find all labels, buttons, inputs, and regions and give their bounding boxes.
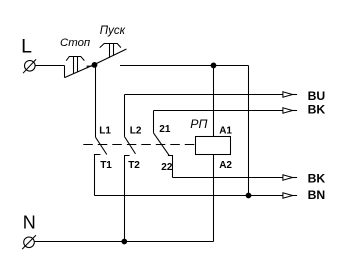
arrow BK1 xyxy=(283,108,293,113)
contact L1 blade xyxy=(96,137,107,154)
svg-text:T2: T2 xyxy=(128,160,140,171)
pushbutton SB1 Стоп actuator xyxy=(66,57,84,61)
node junction dot on BN line xyxy=(246,193,252,199)
arrow BU xyxy=(283,92,293,97)
contact L2 blade xyxy=(125,137,136,154)
svg-text:РП: РП xyxy=(190,117,207,131)
node junction dot after Stop button xyxy=(92,62,98,68)
wire L to Stop button xyxy=(35,65,64,67)
node junction dot on N bus xyxy=(121,239,127,245)
svg-text:L1: L1 xyxy=(99,125,111,136)
wire BU line xyxy=(125,94,283,96)
wire BK1 line xyxy=(154,110,283,112)
terminal N circle xyxy=(24,237,35,248)
wire top bus from Пуск to right corner xyxy=(120,65,249,67)
node junction dot at coil branch xyxy=(211,63,217,69)
svg-text:L: L xyxy=(21,36,32,58)
wire right branch down to BN line xyxy=(248,66,250,196)
wire N bus xyxy=(34,241,213,243)
svg-text:L2: L2 xyxy=(130,125,142,136)
contact T2 fixed seat and lead down xyxy=(125,156,130,242)
pushbutton SB2 Пуск blade xyxy=(94,49,126,65)
svg-text:T1: T1 xyxy=(100,160,112,171)
svg-text:22: 22 xyxy=(161,162,173,173)
terminal N slash xyxy=(22,235,36,249)
svg-text:BU: BU xyxy=(308,89,326,103)
svg-text:BK: BK xyxy=(308,172,326,186)
pushbutton SB1 Стоп left lead xyxy=(64,66,66,78)
mechanical link dashed line xyxy=(83,144,195,146)
pushbutton SB1 Стоп fixed contact seat xyxy=(87,66,94,68)
terminal L circle xyxy=(25,61,36,72)
svg-text:A1: A1 xyxy=(219,125,232,136)
wire coil A2 lead down to N bus xyxy=(213,155,215,242)
arrow BN xyxy=(283,193,293,198)
svg-text:BK: BK xyxy=(308,103,326,117)
wire BN line xyxy=(95,195,283,197)
wire from junction down to contact L1 xyxy=(95,65,97,137)
wire BK2 line xyxy=(173,177,283,179)
contact 21 blade xyxy=(154,133,170,155)
svg-text:21: 21 xyxy=(159,124,171,135)
arrow BK2 xyxy=(283,175,293,180)
pushbutton SB1 Стоп blade xyxy=(65,65,95,78)
svg-text:A2: A2 xyxy=(219,160,232,171)
relay coil РП box xyxy=(196,137,231,155)
svg-text:Пуск: Пуск xyxy=(100,25,126,37)
contact 22 fixed seat and lead to BK2 line xyxy=(168,156,173,178)
wire coil A1 lead xyxy=(213,66,215,137)
contact T1 fixed seat xyxy=(95,155,101,196)
pushbutton SB2 Пуск actuator xyxy=(100,44,121,48)
svg-text:N: N xyxy=(23,212,36,232)
wire from BK1 line down to contact 21 xyxy=(153,111,155,133)
wire from BU line down to contact L2 xyxy=(124,95,126,137)
svg-text:Стоп: Стоп xyxy=(60,37,91,49)
terminal L slash xyxy=(23,59,36,73)
svg-text:BN: BN xyxy=(308,188,326,202)
